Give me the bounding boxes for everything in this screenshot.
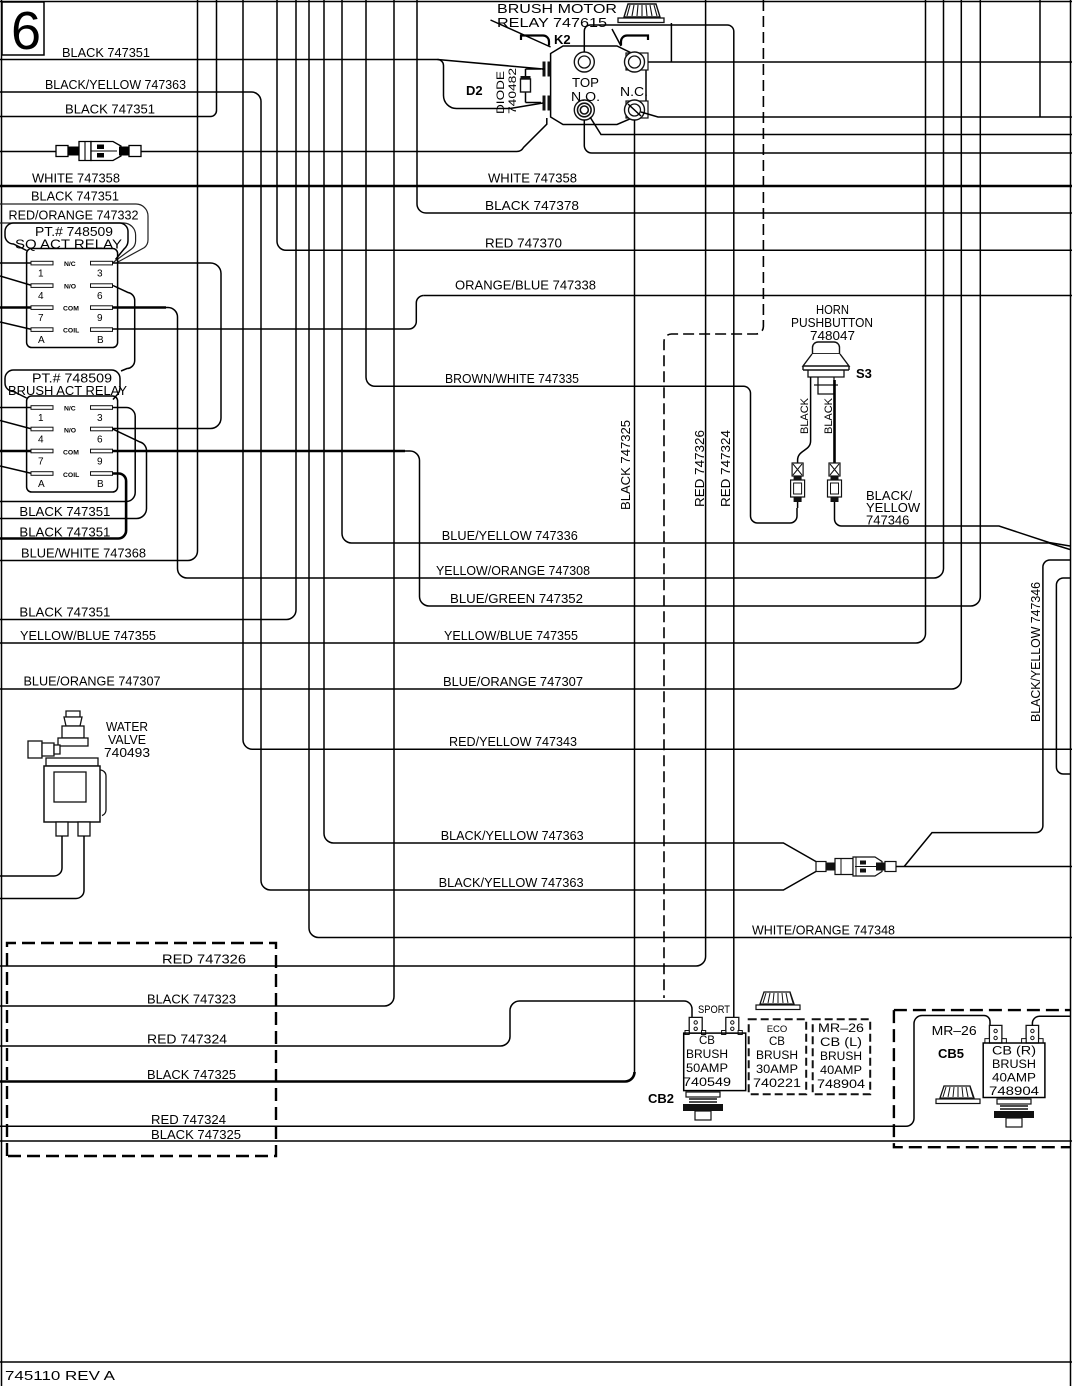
- svg-text:1: 1: [38, 269, 44, 280]
- svg-text:BLACK 747325: BLACK 747325: [147, 1067, 236, 1082]
- title block line: [0, 1361, 1072, 1363]
- svg-text:748047: 748047: [810, 328, 855, 343]
- svg-text:50AMP: 50AMP: [686, 1063, 728, 1075]
- svg-text:BLACK 747323: BLACK 747323: [147, 992, 236, 1007]
- svg-text:ORANGE/BLUE 747338: ORANGE/BLUE 747338: [455, 278, 596, 293]
- svg-text:40AMP: 40AMP: [820, 1065, 862, 1077]
- svg-text:CB (R): CB (R): [992, 1046, 1036, 1058]
- svg-text:N/O: N/O: [64, 284, 76, 291]
- svg-text:3: 3: [97, 269, 103, 280]
- horn connector right: [828, 463, 842, 502]
- svg-text:BLACK 747351: BLACK 747351: [19, 605, 110, 620]
- relay SQ box: [27, 249, 118, 348]
- svg-text:BLACK/YELLOW 747363: BLACK/YELLOW 747363: [441, 828, 584, 843]
- svg-text:748904: 748904: [817, 1079, 866, 1091]
- BRUSH pin9 COM wire to vertical 419.5: [113, 450, 405, 453]
- svg-text:7: 7: [38, 457, 44, 468]
- svg-text:RED 747324: RED 747324: [151, 1112, 226, 1127]
- SQ pin bars row1: [31, 261, 113, 331]
- brush icon above ECO: [756, 992, 800, 1010]
- svg-text:DIODE: DIODE: [495, 71, 507, 114]
- vertical 1056 with arcs to right edge: [1056, 578, 1070, 774]
- SQ pin3 wire to vertical 221 down to BRUSH pin6: [113, 263, 221, 429]
- svg-text:BLACK 747351: BLACK 747351: [19, 504, 110, 519]
- water valve lead A: [0, 836, 62, 876]
- svg-text:RED 747326: RED 747326: [162, 952, 246, 967]
- SQ pinB wire loop up to ORANGE/BLUE: [113, 296, 424, 330]
- dashed harness box bottom left: [7, 943, 276, 1156]
- water valve body: [28, 711, 106, 836]
- svg-text:3: 3: [97, 413, 103, 424]
- vertical 705.6 from top: [705, 0, 707, 957]
- wire YELLOW/ORANGE 747308 right bend into vertical 943.5: [187, 0, 944, 578]
- horn connector left: [791, 463, 805, 508]
- funnel outline top (from wire BLACK 747351): [438, 60, 544, 70]
- svg-text:RED/ORANGE 747332: RED/ORANGE 747332: [9, 208, 139, 223]
- svg-text:BLACK/YELLOW 747346: BLACK/YELLOW 747346: [1028, 582, 1043, 722]
- svg-text:N/O: N/O: [64, 428, 76, 435]
- CB5 group dashed box: [894, 1010, 1070, 1147]
- connector pair symbol: [56, 142, 141, 161]
- svg-text:30AMP: 30AMP: [756, 1064, 798, 1076]
- long vertical 309 to WHITE/ORANGE 747348: [309, 0, 1072, 938]
- page border right: [1070, 0, 1072, 1386]
- K2 relay plate: [551, 46, 646, 125]
- svg-text:BLACK: BLACK: [799, 397, 811, 434]
- svg-text:BLACK 747351: BLACK 747351: [31, 189, 119, 204]
- svg-text:S3: S3: [856, 366, 872, 381]
- svg-text:K2: K2: [554, 32, 571, 47]
- wire from N.O. down then right edge: [584, 120, 1072, 153]
- relay BRUSH box: [27, 396, 118, 492]
- svg-text:4: 4: [38, 291, 44, 302]
- svg-text:747346: 747346: [866, 513, 909, 528]
- K2 label callout slants: [491, 20, 551, 47]
- svg-text:YELLOW/BLUE 747355: YELLOW/BLUE 747355: [444, 628, 578, 643]
- dashed vertical from top with jog: [664, 0, 763, 998]
- funnel outline around D2: [438, 60, 544, 109]
- svg-text:YELLOW/BLUE 747355: YELLOW/BLUE 747355: [20, 628, 156, 643]
- SQ pin9 wire to vertical 177.5 then YELLOW/ORANGE 747308: [113, 306, 166, 309]
- svg-text:BRUSH MOTOR: BRUSH MOTOR: [497, 1, 617, 16]
- svg-text:BLUE/GREEN 747352: BLUE/GREEN 747352: [450, 591, 583, 606]
- svg-text:740549: 740549: [683, 1077, 731, 1089]
- svg-text:6: 6: [97, 435, 103, 446]
- page number box: [2, 2, 44, 55]
- ECO CB dashed box: [749, 1019, 807, 1094]
- svg-text:9: 9: [97, 457, 103, 468]
- svg-text:BLUE/YELLOW 747336: BLUE/YELLOW 747336: [442, 528, 578, 543]
- svg-text:TOP: TOP: [572, 75, 599, 90]
- long vertical 417 to BLACK 747378: [417, 0, 1072, 213]
- svg-text:BRUSH: BRUSH: [992, 1059, 1036, 1071]
- brush icon above K2: [618, 4, 664, 23]
- BRUSH pin3 wire under box to left edge: [0, 408, 135, 502]
- svg-text:9: 9: [97, 313, 103, 324]
- svg-text:40AMP: 40AMP: [992, 1073, 1036, 1085]
- svg-text:4: 4: [38, 435, 44, 446]
- BRUSH pin6 wire slant to vertical 146.5 then BLACK 747351: [0, 429, 147, 518]
- K2 coil blade pins: [543, 62, 551, 111]
- long vertical 277 to RED 747370: [277, 0, 1072, 250]
- svg-text:B: B: [97, 335, 104, 346]
- CB2 terminals: [689, 1017, 739, 1033]
- svg-text:MR–26: MR–26: [932, 1023, 977, 1038]
- horn pushbutton S3 body: [803, 342, 849, 394]
- svg-text:740493: 740493: [104, 745, 150, 760]
- svg-text:MR–26: MR–26: [818, 1023, 864, 1035]
- svg-text:ECO: ECO: [767, 1024, 788, 1035]
- horn leads: [798, 377, 811, 463]
- svg-text:7: 7: [38, 313, 44, 324]
- svg-text:COIL: COIL: [63, 328, 79, 335]
- wire from N.C. upper to right edge: [648, 61, 1072, 63]
- K2 mounting tab left: [521, 36, 549, 46]
- CB2 circuit breaker box: [684, 1033, 746, 1091]
- long vertical 342 to BLUE/YELLOW 747336: [342, 0, 1070, 550]
- svg-text:BLACK 747351: BLACK 747351: [65, 102, 155, 117]
- svg-text:BRUSH: BRUSH: [820, 1051, 862, 1063]
- svg-text:BLACK: BLACK: [823, 397, 835, 434]
- svg-text:CB5: CB5: [938, 1046, 964, 1061]
- svg-text:A: A: [38, 479, 45, 490]
- page border left: [1, 0, 3, 1386]
- svg-text:RELAY 747615: RELAY 747615: [497, 15, 607, 30]
- CB2 stud: [683, 1092, 723, 1120]
- svg-text:COM: COM: [63, 306, 79, 313]
- K2 N.C. upper contact with plate: [626, 53, 648, 70]
- brush icon left of CB5 stud: [936, 1086, 980, 1104]
- svg-text:BLUE/ORANGE 747307: BLUE/ORANGE 747307: [443, 674, 583, 689]
- svg-text:6: 6: [11, 1, 41, 61]
- svg-text:745110 REV A: 745110 REV A: [5, 1368, 115, 1383]
- svg-text:RED 747370: RED 747370: [485, 236, 562, 251]
- svg-text:D2: D2: [466, 83, 483, 98]
- svg-text:WHITE/ORANGE 747348: WHITE/ORANGE 747348: [752, 923, 895, 938]
- BRUSH pinB wire to vertical 126 then BLACK 747351: [0, 474, 126, 539]
- wire from TOP up over to vertical 733.8 down to CB2: [584, 25, 734, 1017]
- CB5 stud: [994, 1099, 1034, 1127]
- svg-text:COIL: COIL: [63, 472, 79, 479]
- svg-text:BLACK 747325: BLACK 747325: [618, 420, 633, 510]
- svg-text:6: 6: [97, 291, 103, 302]
- svg-text:CB: CB: [769, 1036, 785, 1048]
- MR-26 CB (L) dashed box: [813, 1019, 871, 1094]
- svg-text:BRUSH: BRUSH: [756, 1050, 798, 1062]
- svg-text:B: B: [97, 479, 104, 490]
- svg-text:SPORT: SPORT: [698, 1004, 730, 1016]
- svg-text:BLACK 747351: BLACK 747351: [62, 45, 150, 60]
- wire from N.O. slant to right edge: [590, 117, 1072, 135]
- wire brush icon to relay: [670, 23, 672, 62]
- svg-text:WHITE 747358: WHITE 747358: [488, 171, 577, 186]
- K2 TOP contact circle: [574, 52, 594, 72]
- BRUSH pin stubs left: [0, 407, 32, 409]
- svg-text:BROWN/WHITE 747335: BROWN/WHITE 747335: [445, 371, 579, 386]
- long vertical 366 to BROWN/WHITE 747335: [366, 0, 797, 523]
- CB5 right terminal feed from right edge: [1032, 1016, 1070, 1025]
- diode D2: [521, 69, 542, 103]
- long vertical 324 to BLACK/YELLOW 747363: [324, 0, 816, 862]
- svg-text:740221: 740221: [753, 1078, 801, 1090]
- long vertical 394 to BLACK 747323: [0, 0, 394, 1006]
- svg-text:BLUE/ORANGE 747307: BLUE/ORANGE 747307: [24, 674, 161, 689]
- wire with inline connector: [0, 118, 547, 152]
- svg-text:WHITE 747358: WHITE 747358: [32, 171, 120, 186]
- wire from N.C. lower slant to right edge: [641, 112, 1072, 117]
- SQ pin stubs left: [0, 262, 32, 264]
- svg-text:A: A: [38, 335, 45, 346]
- svg-text:BRUSH: BRUSH: [686, 1049, 728, 1061]
- K2 N.O. contact circle: [574, 100, 594, 120]
- svg-text:N/C: N/C: [64, 406, 76, 413]
- K2 mounting tab right: [621, 36, 648, 46]
- svg-text:748904: 748904: [989, 1086, 1040, 1098]
- svg-text:COM: COM: [63, 450, 79, 457]
- page border top: [0, 1, 1072, 3]
- svg-text:CB: CB: [699, 1035, 715, 1047]
- CB5 box: [983, 1043, 1045, 1098]
- svg-text:BLUE/WHITE 747368: BLUE/WHITE 747368: [21, 546, 146, 561]
- svg-text:RED 747324: RED 747324: [147, 1032, 227, 1047]
- SQ pin6 wire down to brush callout: [113, 286, 135, 372]
- svg-text:RED 747326: RED 747326: [692, 430, 707, 507]
- inline connector (right mid): [816, 857, 896, 876]
- K2 N.C. lower contact with plate: [626, 101, 648, 118]
- CB5 terminals: [989, 1025, 1038, 1043]
- svg-text:1: 1: [38, 413, 44, 424]
- svg-text:CB2: CB2: [648, 1091, 674, 1106]
- svg-text:BLACK 747351: BLACK 747351: [19, 525, 110, 540]
- svg-text:BLACK 747325: BLACK 747325: [151, 1127, 241, 1142]
- vertical 1040 at top right: [1039, 0, 1041, 117]
- svg-text:RED/YELLOW 747343: RED/YELLOW 747343: [449, 734, 577, 749]
- long vertical 243 to RED/YELLOW 747343: [243, 0, 1072, 749]
- arc from right edge into vertical 1043: [1043, 560, 1070, 567]
- svg-text:BLACK/YELLOW 747363: BLACK/YELLOW 747363: [439, 875, 584, 890]
- wire right of connector with junction slant up to vertical 1043: [896, 866, 1072, 868]
- BRUSH pin bars: [31, 406, 113, 476]
- vertical wire from N.C. lower down: [634, 120, 636, 1072]
- water valve lead B: [0, 836, 84, 899]
- horn right lead down to wire: [835, 502, 1071, 546]
- svg-text:N.C.: N.C.: [620, 84, 648, 99]
- svg-text:BLACK/YELLOW 747363: BLACK/YELLOW 747363: [45, 77, 186, 92]
- svg-text:BLACK 747378: BLACK 747378: [485, 198, 579, 213]
- svg-text:CB (L): CB (L): [820, 1037, 862, 1049]
- svg-text:RED 747324: RED 747324: [718, 430, 733, 507]
- svg-text:N.O.: N.O.: [571, 89, 600, 104]
- svg-text:YELLOW/ORANGE 747308: YELLOW/ORANGE 747308: [436, 563, 590, 578]
- svg-text:N/C: N/C: [64, 261, 76, 268]
